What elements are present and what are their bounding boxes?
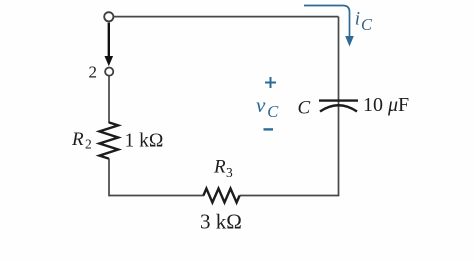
wire bottom left segment [109, 195, 204, 197]
plus sign [265, 77, 276, 88]
svg-text:2: 2 [89, 62, 98, 81]
wire top horizontal [114, 16, 339, 18]
resistor R2 [99, 122, 118, 158]
svg-text:10 μF: 10 μF [363, 94, 409, 116]
svg-text:v: v [256, 93, 266, 117]
svg-text:R: R [71, 129, 84, 150]
svg-text:C: C [361, 15, 373, 34]
wire right vertical [338, 17, 340, 196]
terminal node 2 (lower circle) [105, 68, 113, 76]
svg-text:R: R [213, 157, 226, 178]
capacitor C [319, 101, 358, 112]
terminal node 1 (top circle) [104, 12, 113, 21]
wire left lower (R2 to bottom) [108, 158, 110, 196]
svg-text:3 kΩ: 3 kΩ [200, 210, 242, 234]
svg-text:2: 2 [85, 136, 92, 151]
minus sign [264, 128, 274, 130]
svg-text:1 kΩ: 1 kΩ [125, 131, 164, 152]
resistor R3 [203, 189, 239, 203]
current arrow iC [304, 6, 354, 47]
svg-text:3: 3 [226, 165, 233, 180]
svg-text:C: C [267, 102, 279, 121]
svg-text:C: C [298, 98, 311, 119]
svg-text:i: i [355, 8, 360, 29]
switch arrow (to position 2) [105, 23, 114, 67]
wire left upper (switch to R2) [108, 76, 110, 124]
wire bottom right segment [240, 195, 340, 197]
